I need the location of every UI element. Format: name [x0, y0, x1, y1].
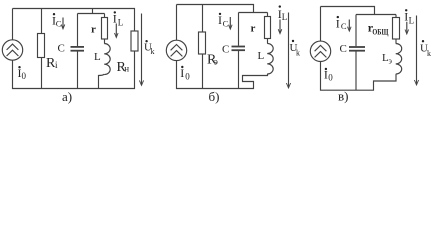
svg-text:C: C [340, 43, 347, 55]
svg-text:н: н [124, 64, 129, 74]
svg-text:L: L [258, 50, 265, 62]
svg-text:I: I [336, 16, 340, 30]
svg-text:r: r [91, 24, 96, 36]
svg-text:C: C [223, 19, 229, 29]
svg-text:б): б) [209, 89, 220, 104]
svg-text:э: э [389, 57, 393, 66]
svg-text:C: C [58, 43, 65, 55]
svg-text:I: I [404, 10, 408, 24]
svg-text:k: k [151, 47, 155, 56]
svg-text:0: 0 [328, 72, 333, 82]
svg-text:L: L [118, 18, 124, 28]
svg-text:ОБЩ: ОБЩ [372, 28, 388, 37]
svg-text:r: r [251, 22, 256, 34]
svg-text:I: I [113, 12, 117, 26]
svg-text:I: I [218, 13, 222, 27]
svg-text:L: L [409, 15, 415, 25]
svg-text:L: L [94, 51, 101, 63]
svg-text:C: C [222, 43, 229, 55]
svg-text:0: 0 [22, 71, 27, 81]
svg-text:а): а) [62, 89, 72, 104]
svg-text:в): в) [338, 88, 348, 103]
svg-text:k: k [296, 49, 300, 58]
svg-text:C: C [341, 21, 347, 31]
svg-text:э: э [214, 56, 218, 66]
svg-text:k: k [427, 49, 431, 58]
svg-text:I: I [180, 66, 184, 80]
svg-text:L: L [282, 12, 288, 22]
svg-text:0: 0 [185, 72, 190, 82]
svg-text:C: C [56, 19, 62, 29]
